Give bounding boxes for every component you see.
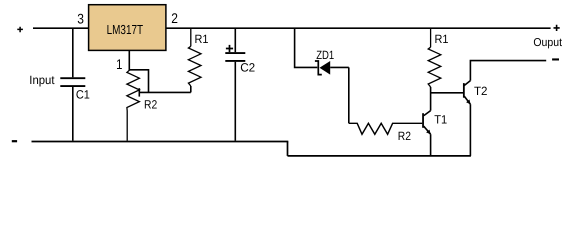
- svg-text:C1: C1: [76, 88, 90, 102]
- minus input terminal: [12, 140, 17, 142]
- plus output terminal: [554, 25, 560, 31]
- regulator U1 LM317T: [89, 5, 166, 51]
- minus output terminal: [552, 58, 559, 60]
- wire zener down: [348, 67, 350, 123]
- capacitor C2: [225, 28, 245, 141]
- svg-text:T1: T1: [434, 112, 447, 126]
- wire T2 base: [431, 92, 463, 94]
- svg-text:3: 3: [77, 11, 84, 27]
- svg-text:R1: R1: [435, 32, 449, 46]
- wire T2 collector to minus out: [470, 61, 546, 81]
- wire wiper to R1: [139, 91, 191, 93]
- wire pin 1: [128, 50, 130, 70]
- resistor R2 (base): [349, 123, 423, 134]
- svg-text:R1: R1: [195, 32, 209, 46]
- transistor T1: [423, 111, 431, 135]
- wire rail step: [287, 142, 289, 156]
- capacitor C1: [60, 28, 85, 141]
- wire T1 emitter to rail: [430, 134, 432, 156]
- wire bottom rail left: [32, 141, 289, 143]
- wire bottom rail right: [288, 155, 471, 157]
- resistor R2 (adjust): [127, 70, 139, 140]
- svg-text:1: 1: [116, 56, 122, 72]
- svg-text:2: 2: [171, 10, 178, 26]
- wire top rail left: [33, 27, 89, 29]
- resistor R1: [188, 28, 201, 92]
- svg-text:Input: Input: [29, 73, 55, 87]
- wire zener branch: [295, 28, 318, 67]
- emitter arrow T2: [466, 100, 470, 105]
- svg-text:R2: R2: [398, 129, 411, 143]
- wire adj bracket: [129, 70, 148, 93]
- svg-text:R2: R2: [144, 97, 157, 111]
- wire T1 collector / R1 bottom: [430, 87, 432, 111]
- svg-text:LM317T: LM317T: [107, 22, 144, 37]
- resistor R1 (right): [428, 28, 441, 87]
- svg-text:C2: C2: [240, 61, 255, 75]
- wire T2 emitter to rail: [469, 104, 471, 156]
- plus input terminal: [17, 27, 23, 33]
- zener diode ZD1: [315, 61, 349, 75]
- transistor T2: [464, 81, 471, 105]
- plus mark C2: [226, 45, 233, 52]
- svg-text:Ouput: Ouput: [533, 37, 562, 49]
- wiper arrow tick: [138, 88, 140, 96]
- emitter arrow T1: [426, 130, 431, 135]
- svg-text:T2: T2: [474, 84, 488, 98]
- wire top rail right: [166, 27, 551, 29]
- svg-text:ZD1: ZD1: [316, 48, 334, 62]
